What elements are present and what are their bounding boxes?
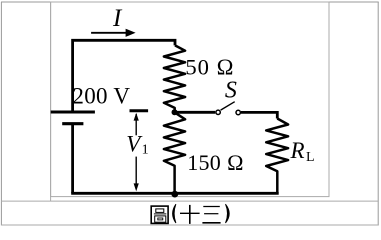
table row divider xyxy=(1,200,379,202)
wire: left branch lower xyxy=(71,125,74,193)
caption glyph SHI (ten) vertical xyxy=(189,205,191,224)
caption glyph SHI (ten) horizontal xyxy=(180,212,200,214)
caption glyph TU (figure) outer box xyxy=(151,206,168,223)
node junction mid (dot) xyxy=(172,109,178,115)
svg-text:150 Ω: 150 Ω xyxy=(187,150,244,175)
svg-text:S: S xyxy=(225,78,237,104)
table outer border right xyxy=(377,2,379,226)
table column divider xyxy=(50,2,52,201)
V1 arrow upper segment xyxy=(135,114,137,135)
wire: junction to switch xyxy=(175,111,216,114)
svg-text:200 V: 200 V xyxy=(72,84,130,109)
caption glyph TU inner top box xyxy=(156,209,164,213)
resistor RL zigzag xyxy=(266,119,288,194)
wire: switch to RL branch, into RL lead xyxy=(241,112,277,118)
caption open paren xyxy=(173,204,176,223)
switch S lever xyxy=(221,102,235,110)
caption glyph TU bottom box xyxy=(155,216,166,222)
resistor 50ohm zigzag xyxy=(164,45,185,112)
V1 arrow lower segment xyxy=(135,157,137,185)
table outer border bottom xyxy=(1,224,379,226)
caption glyph TU inner tiny box xyxy=(158,218,163,220)
node junction bottom (dot) xyxy=(171,191,178,198)
svg-text:I: I xyxy=(112,5,123,32)
V1 up arrowhead xyxy=(134,113,139,121)
caption glyph SAN (three) bottom bar xyxy=(202,222,220,224)
caption glyph SAN (three) middle bar xyxy=(204,213,218,215)
svg-text:50 Ω: 50 Ω xyxy=(185,54,234,79)
current arrowhead xyxy=(126,29,136,37)
caption glyph SAN (three) top bar xyxy=(203,206,220,208)
battery E long plate xyxy=(51,111,95,114)
resistor 150ohm zigzag xyxy=(164,112,185,193)
wire: left branch upper + top wire, into resistor R1 lead xyxy=(73,40,175,111)
current arrow line xyxy=(91,32,127,34)
caption glyph TU middle bar xyxy=(154,213,166,215)
caption close paren xyxy=(226,204,230,223)
voltmeter V1 top bar xyxy=(130,109,149,112)
battery E short plate xyxy=(62,122,83,125)
switch S right contact xyxy=(236,110,240,114)
svg-text:V1: V1 xyxy=(126,132,148,158)
wire: bottom xyxy=(71,192,279,195)
V1 down arrowhead xyxy=(134,183,139,191)
table outer border top xyxy=(1,1,379,3)
svg-text:RL: RL xyxy=(290,138,315,165)
table outer border left xyxy=(0,2,2,226)
figure image border xyxy=(51,2,329,197)
switch S left contact xyxy=(216,110,220,114)
